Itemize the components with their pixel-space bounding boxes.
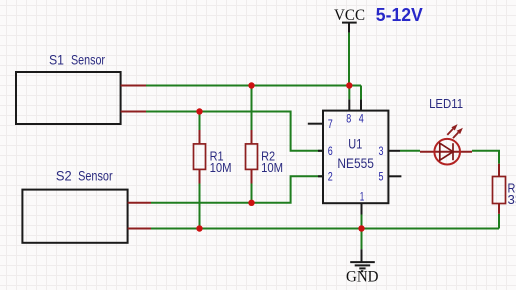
- svg-text:Sensor: Sensor: [78, 168, 113, 184]
- svg-text:5: 5: [379, 171, 384, 183]
- U1 pin 1 stub: [361, 203, 363, 214]
- junction dot R2 top: [248, 82, 254, 88]
- svg-text:6: 6: [328, 146, 333, 158]
- U1 pin 4 stub: [360, 99, 362, 110]
- svg-text:NE555: NE555: [337, 155, 374, 171]
- svg-text:S2: S2: [56, 168, 72, 184]
- wire pin1 to GND rail: [361, 215, 363, 229]
- junction dot R2 bottom: [248, 200, 254, 206]
- wire GND rail to ground symbol: [361, 229, 363, 250]
- U1 pin 2 stub: [318, 175, 323, 177]
- svg-text:GND: GND: [346, 269, 379, 286]
- power VCC symbol: [334, 7, 365, 33]
- junction dot R1 top: [196, 108, 202, 114]
- svg-text:LED11: LED11: [429, 96, 463, 111]
- U1 pin 8 stub: [348, 99, 350, 110]
- LED LED11: [420, 124, 472, 164]
- svg-text:2: 2: [328, 171, 333, 183]
- sensor S1 pin 1: [121, 85, 146, 87]
- sensor S2 box: [22, 190, 127, 243]
- U1 pin 7 stub: [308, 123, 323, 125]
- svg-text:3: 3: [379, 146, 384, 158]
- resistor R1: [194, 130, 206, 184]
- sensor S1 box: [16, 72, 121, 124]
- label S2 Sensor: [56, 168, 113, 184]
- svg-text:VCC: VCC: [334, 7, 365, 24]
- wire LED to R3: [472, 151, 499, 164]
- wire R1 top branch: [199, 112, 201, 131]
- wire net GND rail: [151, 228, 499, 230]
- svg-text:330: 330: [508, 192, 516, 207]
- svg-text:10M: 10M: [261, 160, 283, 175]
- junction dot R1 bottom: [196, 225, 202, 231]
- U1 pin 5 stub: [388, 175, 401, 177]
- resistor R2: [246, 130, 258, 184]
- wire net TRG (S2 pin1 to pin2): [151, 176, 323, 203]
- label R2: [261, 149, 283, 176]
- svg-text:10M: 10M: [210, 160, 232, 175]
- label R1: [210, 149, 232, 176]
- wire R2 bottom branch: [251, 184, 253, 203]
- svg-text:7: 7: [328, 119, 333, 131]
- sensor S1 pin 2: [121, 111, 146, 113]
- resistor R3: [493, 164, 506, 214]
- svg-text:S1: S1: [49, 52, 64, 68]
- wire net VCC rail (S1 pin1 to pin8/pin4): [146, 86, 361, 100]
- wire net THR (S1 pin2 to pin6): [146, 112, 323, 151]
- label R3: [508, 181, 516, 208]
- sensor S2 pin 2: [128, 228, 151, 230]
- svg-text:5-12V: 5-12V: [376, 5, 423, 25]
- op-amp U1 box (NE555): [323, 111, 388, 204]
- svg-text:4: 4: [359, 114, 364, 126]
- wire R3 bottom branch: [498, 214, 500, 229]
- svg-text:Sensor: Sensor: [71, 52, 105, 68]
- wire VCC drop: [348, 33, 350, 86]
- wire pin3 to LED: [400, 150, 420, 152]
- sensor S2 pin 1: [128, 202, 151, 204]
- junction dot VCC/pin8: [346, 82, 352, 88]
- label S1 Sensor: [49, 52, 105, 68]
- wire R1 bottom branch: [199, 184, 201, 229]
- junction dot GND rail: [358, 225, 364, 231]
- ground GND symbol: [350, 249, 375, 271]
- svg-text:1: 1: [360, 192, 365, 204]
- U1 pin 3 stub: [388, 150, 400, 152]
- svg-text:U1: U1: [348, 136, 362, 152]
- U1 pin 6 stub: [318, 150, 323, 152]
- svg-text:8: 8: [346, 114, 351, 126]
- wire R2 top branch: [251, 86, 253, 131]
